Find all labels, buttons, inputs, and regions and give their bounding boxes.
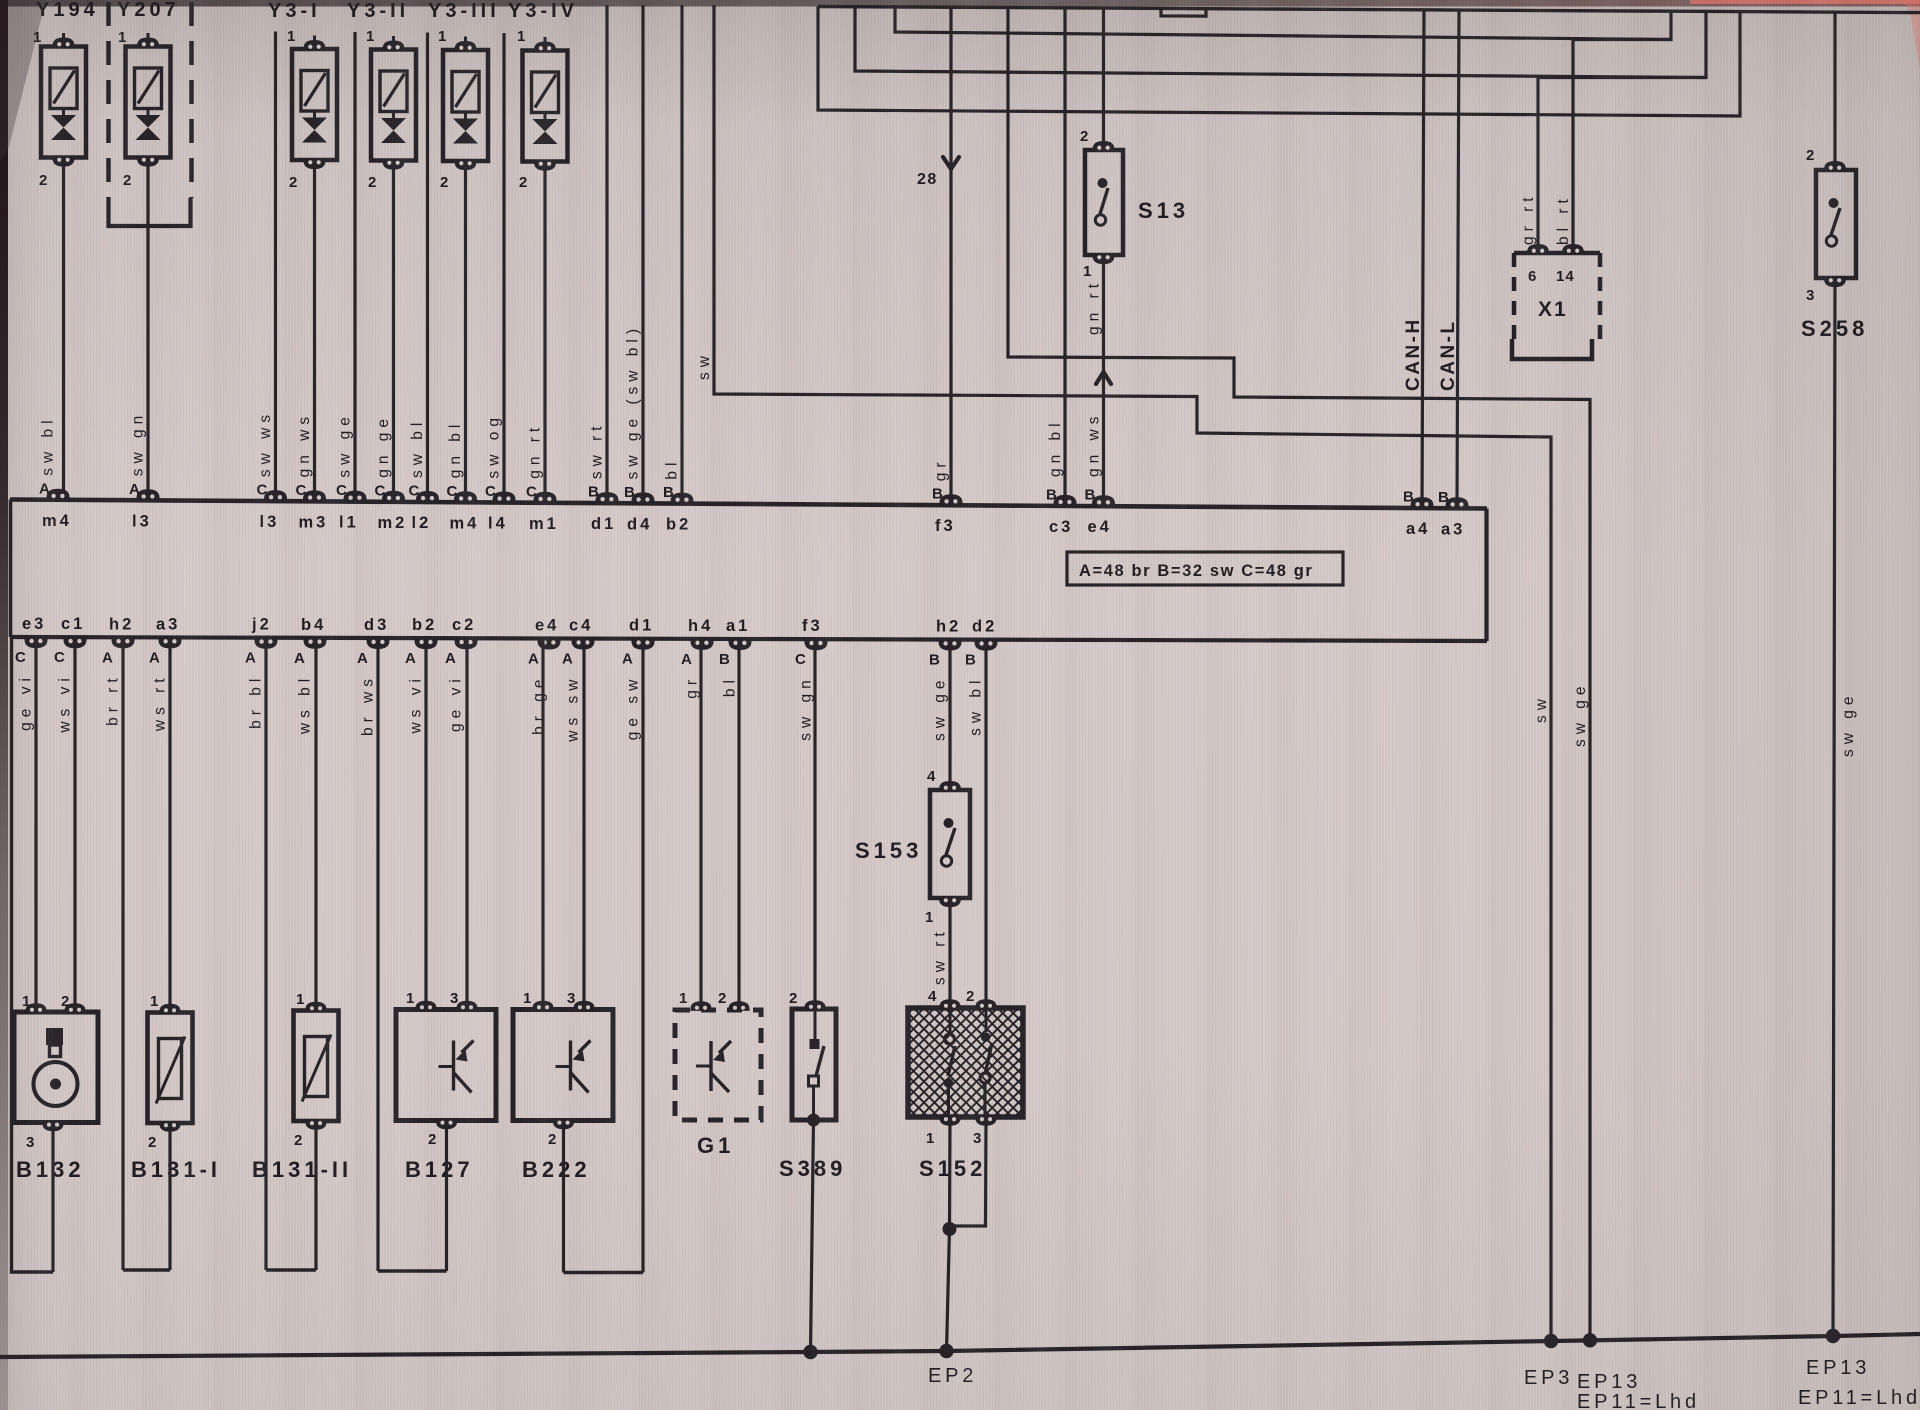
switch S389 bottom junction dot: [807, 1114, 820, 1127]
sensor B131-II pin 1 fork: [305, 1002, 326, 1012]
svg-text:Y194: Y194: [36, 0, 99, 21]
svg-text:gn bl: gn bl: [447, 420, 464, 479]
valve Y194 coil: [50, 68, 77, 109]
svg-text:C: C: [257, 482, 269, 499]
svg-text:A: A: [357, 650, 369, 667]
valve Y207 valve bowtie: [136, 115, 161, 128]
svg-text:m4: m4: [42, 512, 72, 530]
svg-text:m2: m2: [378, 514, 408, 532]
svg-text:d1: d1: [591, 515, 616, 533]
ECU bottom pin j2 fork: [255, 638, 278, 649]
wire S152 pin1 down: [948, 1117, 952, 1230]
svg-text:sw ge: sw ge: [932, 676, 949, 742]
screen top-right red glow: [1690, 0, 1920, 4]
svg-text:f3: f3: [802, 617, 823, 635]
switch S153 contacts: [944, 818, 954, 828]
svg-text:gn bl: gn bl: [1047, 418, 1064, 477]
wire Y3-III pin2 to m4: [464, 161, 467, 502]
ECU bottom pin b2 fork: [415, 639, 438, 650]
wire S13 pin2 from top rail: [1102, 8, 1105, 150]
svg-text:C: C: [795, 651, 807, 668]
wire B131-II pin2 down: [314, 1121, 317, 1270]
svg-text:m1: m1: [529, 515, 559, 533]
svg-text:h2: h2: [936, 618, 961, 636]
svg-text:e3: e3: [22, 615, 46, 633]
svg-text:2: 2: [123, 172, 132, 189]
svg-text:A: A: [562, 651, 574, 668]
wire gr direction arrow 28: [943, 157, 959, 169]
ECU top pin l4 fork: [493, 492, 516, 503]
svg-text:C: C: [15, 649, 27, 666]
svg-text:sw bl: sw bl: [409, 418, 426, 478]
svg-text:2: 2: [39, 172, 48, 189]
valve Y3-I body: [292, 49, 337, 160]
ECU bottom pin a3 fork: [159, 638, 182, 649]
wire f3 (gr) from top rail: [949, 7, 952, 505]
wire d1 (sw rt) from top edge: [605, 5, 608, 503]
svg-text:4: 4: [928, 988, 937, 1005]
switch S389 contacts: [814, 1009, 817, 1040]
svg-text:sw ge: sw ge: [337, 412, 354, 478]
svg-text:2: 2: [966, 988, 975, 1005]
svg-text:Y3-I: Y3-I: [268, 0, 321, 22]
wire bl rt to X1 pin14: [1573, 38, 1671, 41]
ground rail EP2/EP3/EP13: [0, 1334, 1920, 1357]
switch S152 pin 1 fork: [939, 1116, 960, 1126]
ground junction dot EP3: [1544, 1334, 1558, 1348]
svg-text:3: 3: [450, 990, 459, 1007]
svg-text:bl: bl: [664, 458, 681, 480]
svg-text:d3: d3: [364, 616, 389, 634]
svg-text:gn ws: gn ws: [296, 412, 313, 478]
valve Y3-IV stub: [544, 113, 547, 120]
svg-text:2: 2: [61, 993, 70, 1010]
ECU top pin l3 fork: [264, 490, 287, 501]
svg-text:bl: bl: [722, 675, 739, 697]
valve Y194 pin 1 stub wire: [62, 33, 65, 39]
svg-text:1: 1: [366, 28, 375, 45]
wire rail level-2 (from x=855 to x=1706): [855, 5, 1706, 78]
wire d3 to U-bracket (br ws): [376, 638, 379, 1271]
ECU top pin l2 fork: [416, 491, 439, 502]
valve Y3-III pin 1 fork: [455, 41, 477, 51]
valve Y3-II pin 1 fork: [383, 40, 405, 50]
svg-text:a3: a3: [1441, 520, 1465, 538]
svg-text:Y207: Y207: [117, 0, 180, 21]
svg-text:a4: a4: [1406, 520, 1430, 538]
svg-text:br rt: br rt: [105, 673, 122, 726]
svg-text:bl rt: bl rt: [1555, 194, 1572, 245]
wire d4 (sw ge/sw bl) from top edge: [641, 5, 644, 503]
svg-text:A: A: [294, 650, 306, 667]
svg-text:gn ws: gn ws: [1086, 412, 1103, 478]
svg-text:2: 2: [289, 174, 298, 191]
svg-text:2: 2: [519, 174, 528, 191]
svg-text:A=48 br B=32 sw C=48 gr: A=48 br B=32 sw C=48 gr: [1079, 562, 1313, 580]
svg-text:B: B: [1438, 489, 1450, 506]
valve Y3-IV valve bowtie: [533, 119, 558, 132]
svg-text:C: C: [336, 482, 348, 499]
svg-text:A: A: [245, 650, 257, 667]
svg-text:C: C: [485, 483, 497, 500]
wire d1 to U-bracket (ge sw): [641, 639, 644, 1273]
svg-text:B: B: [663, 484, 675, 501]
svg-text:2: 2: [440, 174, 449, 191]
svg-text:B131-II: B131-II: [252, 1157, 352, 1182]
switch S258 contacts: [1829, 198, 1839, 208]
ECU bottom pin e3 fork: [25, 638, 48, 649]
screen top bezel: [0, 0, 1920, 7]
wire sw to EP3 (elbow path): [714, 5, 1551, 1341]
svg-text:ws vi: ws vi: [57, 673, 74, 733]
ECU connector key box A=48 br B=32 sw C=48 gr: [1067, 552, 1343, 585]
switch S152 left contact set: [949, 1008, 952, 1034]
svg-text:B: B: [719, 651, 731, 668]
svg-text:G1: G1: [697, 1133, 734, 1158]
valve Y3-II body: [371, 50, 416, 161]
wire S152 pin3 elbow to pin1 wire: [950, 1117, 987, 1226]
switch S389 body: [792, 1009, 836, 1120]
svg-text:sw: sw: [696, 351, 713, 380]
svg-text:C: C: [526, 483, 538, 500]
ground junction dot S389/EP2 line: [803, 1345, 817, 1359]
ECU box bottom bus: [10, 637, 1487, 641]
svg-text:C: C: [447, 483, 459, 500]
svg-text:m4: m4: [450, 514, 480, 532]
switch S152 pin 3 fork: [975, 1116, 996, 1126]
svg-text:Y3-IV: Y3-IV: [508, 0, 578, 22]
valve Y3-I pin 1 fork: [304, 40, 326, 50]
svg-text:EP13: EP13: [1577, 1371, 1641, 1393]
svg-text:Y3-II: Y3-II: [347, 0, 409, 22]
valve Y3-IV pin 1 stub wire: [544, 37, 547, 43]
svg-text:6: 6: [1528, 268, 1537, 285]
sensor B222 symbol: [569, 1041, 572, 1091]
wire f3 to S389 pin2: [813, 639, 816, 1009]
valve Y207 body: [126, 47, 171, 158]
wire S258 pin3 to EP13 (sw ge): [1833, 278, 1835, 1336]
svg-text:CAN-L: CAN-L: [1438, 319, 1459, 391]
switch S13 pin 1 fork: [1093, 254, 1115, 264]
ECU top pin f3 fork: [940, 494, 963, 505]
wire B132 pin3 down: [51, 1123, 54, 1273]
svg-text:C: C: [375, 482, 387, 499]
svg-text:c1: c1: [61, 615, 85, 633]
svg-text:h2: h2: [109, 615, 134, 633]
wire gr rt to X1 pin6: [1538, 76, 1706, 79]
switch S153 pin 1 fork: [939, 897, 961, 907]
svg-text:2: 2: [789, 990, 798, 1007]
ECU bottom pin h4 fork: [691, 639, 714, 650]
svg-text:1: 1: [517, 28, 526, 45]
valve Y3-III stub: [464, 112, 467, 119]
svg-text:sw bl: sw bl: [968, 676, 985, 736]
svg-text:S153: S153: [855, 838, 922, 863]
svg-text:sw ge: sw ge: [1572, 682, 1589, 748]
wire S258 pin2 from top rail: [1833, 12, 1836, 170]
valve Y3-III body: [443, 50, 488, 161]
pressure switch S152 body (crosshatched): [908, 1008, 1023, 1117]
wire c4 to B222 pin3: [582, 639, 585, 1010]
svg-text:d1: d1: [629, 617, 654, 635]
svg-text:sw ws: sw ws: [257, 410, 274, 477]
valve Y3-I pin 1 stub wire: [313, 36, 316, 42]
connector X1 pin 14 fork: [1562, 244, 1584, 254]
svg-text:EP2: EP2: [928, 1365, 977, 1387]
svg-text:1: 1: [438, 28, 447, 45]
ECU top pin m2 fork: [382, 491, 405, 502]
svg-text:EP11=Lhd: EP11=Lhd: [1798, 1387, 1920, 1409]
sensor B131-II pin 2 fork: [305, 1120, 326, 1130]
svg-text:sw ge (sw bl): sw ge (sw bl): [625, 324, 642, 479]
svg-text:ge sw: ge sw: [625, 675, 642, 741]
wire U-bracket B127: [378, 1269, 447, 1272]
svg-text:1: 1: [1083, 263, 1092, 280]
valve Y207 stub: [147, 109, 150, 116]
valve Y207 pin 1 fork: [137, 37, 159, 47]
switch S389 pin 2 fork: [804, 1000, 825, 1010]
sensor B131-I body: [148, 1013, 193, 1124]
valve Y3-III coil: [452, 72, 479, 113]
connector X1 bottom bracket: [1512, 339, 1592, 359]
switch S153 body: [930, 790, 970, 898]
wire top rail: [818, 7, 1920, 13]
svg-text:a3: a3: [156, 615, 180, 633]
wire rail level-1 (from x=895 to x=1671): [895, 5, 1671, 40]
connector X1 pin 6 fork: [1527, 244, 1549, 254]
sensor B132 pin 1 fork: [25, 1003, 46, 1013]
svg-text:2: 2: [294, 1132, 303, 1149]
ECU top pin l3 fork: [137, 489, 160, 500]
switch S152 pin 2 fork: [975, 999, 996, 1009]
junction dot S152 wires: [943, 1222, 957, 1236]
wire l3 (sw ws) long vertical: [274, 32, 277, 502]
ECU bottom pin h2 fork: [939, 640, 962, 651]
ECU bottom pin c1 fork: [64, 638, 87, 649]
svg-text:1: 1: [406, 990, 415, 1007]
svg-text:ge vi: ge vi: [18, 673, 35, 731]
sensor B127 pin 1 fork: [415, 1001, 436, 1011]
valve Y3-II pin 1 stub wire: [392, 36, 395, 42]
svg-text:B: B: [929, 652, 941, 669]
wire a1 to G1 pin2: [737, 639, 740, 1010]
svg-text:2: 2: [1080, 128, 1089, 145]
sensor B222 pin 1 fork: [532, 1001, 553, 1011]
svg-text:sw: sw: [1533, 694, 1550, 723]
ECU top pin m3 fork: [303, 490, 326, 501]
svg-text:j2: j2: [251, 616, 272, 634]
valve Y3-III valve bowtie: [453, 119, 478, 132]
svg-text:B: B: [624, 484, 636, 501]
svg-text:gr: gr: [684, 675, 701, 699]
sensor B131-II body: [294, 1011, 339, 1122]
svg-text:c3: c3: [1049, 518, 1073, 536]
svg-text:gr: gr: [933, 457, 950, 481]
sensor G1 dashed body: [675, 1010, 761, 1120]
ECU top pin c3 fork: [1054, 495, 1077, 506]
sensor G1 pin 1 fork: [690, 1001, 711, 1011]
wire Y207 pin2 to l3: [146, 158, 149, 501]
svg-text:EP3: EP3: [1524, 1367, 1573, 1389]
svg-text:sw gn: sw gn: [130, 411, 147, 477]
wire S153 pin1 to S152 pin4 (sw rt): [948, 898, 951, 1002]
svg-text:B131-I: B131-I: [131, 1157, 221, 1182]
svg-text:gr rt: gr rt: [1520, 192, 1537, 245]
ECU bottom pin d2 fork: [975, 640, 998, 651]
svg-text:gn ge: gn ge: [375, 414, 392, 478]
svg-text:A: A: [149, 649, 161, 666]
ECU bottom pin a1 fork: [729, 640, 752, 651]
ECU top pin a4 fork: [1411, 497, 1434, 508]
svg-text:1: 1: [523, 990, 532, 1007]
wire Y3-II pin2 to m2: [392, 161, 395, 502]
switch S13 pin 2 fork: [1093, 141, 1115, 151]
wire B127 pin2 down: [445, 1121, 448, 1272]
valve Y3-IV coil: [532, 72, 559, 113]
screen top-left corner shading: [0, 0, 46, 160]
wire S152 to EP2 ground: [947, 1229, 950, 1351]
svg-text:1: 1: [33, 29, 42, 46]
wire Y3-IV pin2 to m1: [543, 162, 546, 503]
ECU top pin l1 fork: [344, 491, 367, 502]
ECU top pin m4 fork: [47, 489, 70, 500]
sensor B132 pin 2 fork: [64, 1003, 85, 1013]
wire S389 to EP2: [811, 1120, 814, 1352]
svg-text:B: B: [1403, 489, 1415, 506]
svg-text:br ge: br ge: [531, 675, 548, 735]
svg-text:l3: l3: [132, 512, 152, 530]
svg-text:3: 3: [1806, 287, 1815, 304]
svg-text:b2: b2: [666, 516, 691, 534]
ECU box top bus: [10, 500, 1487, 509]
screen left bezel: [0, 0, 8, 1410]
wire b2 (bl) from top edge: [680, 5, 683, 504]
switch S258 body: [1816, 170, 1856, 278]
svg-text:A: A: [102, 649, 114, 666]
svg-text:ws vi: ws vi: [408, 674, 425, 734]
valve Y3-IV pin 2 fork: [534, 161, 556, 171]
svg-text:B: B: [1046, 486, 1058, 503]
svg-text:h4: h4: [688, 617, 713, 635]
wire CAN-H from top rail to a4: [1422, 10, 1424, 508]
svg-text:B132: B132: [16, 1157, 85, 1182]
valve Y3-III pin 1 stub wire: [464, 37, 467, 43]
svg-text:ge vi: ge vi: [448, 674, 465, 732]
valve Y207 coil: [135, 68, 162, 109]
wire a3 to B131-I pin1: [168, 637, 171, 1012]
svg-text:l1: l1: [339, 514, 359, 532]
wire e4 to B222 pin1: [541, 638, 544, 1009]
sensor B132 pin 3 fork: [42, 1122, 63, 1132]
wire l2 (sw bl) long vertical: [426, 33, 429, 503]
wire d2 to S152 pin2: [984, 640, 987, 1002]
svg-text:A: A: [405, 650, 417, 667]
svg-text:2: 2: [1806, 147, 1815, 164]
valve Y3-IV body: [523, 51, 568, 162]
svg-text:S152: S152: [919, 1156, 986, 1181]
valve Y3-II pin 2 fork: [383, 160, 405, 170]
svg-text:A: A: [528, 651, 540, 668]
svg-text:CAN-H: CAN-H: [1403, 317, 1424, 391]
sensor B222 pin 2 fork: [553, 1120, 574, 1130]
svg-text:l2: l2: [412, 514, 432, 532]
svg-text:4: 4: [927, 768, 936, 785]
switch S152 pin 4 fork: [939, 999, 960, 1009]
ground junction dot EP13 right: [1826, 1329, 1840, 1343]
svg-text:B222: B222: [522, 1157, 591, 1182]
wire b2 to B127 pin1: [424, 638, 427, 1009]
svg-text:f3: f3: [935, 517, 956, 535]
sensor B127 pin 2 fork: [436, 1120, 457, 1130]
switch S13 contacts: [1098, 178, 1108, 188]
svg-text:sw ge: sw ge: [1840, 692, 1857, 758]
sensor B131-I pin 2 fork: [159, 1122, 180, 1132]
sensor B127 symbol: [452, 1041, 455, 1091]
ECU top pin d1 fork: [596, 492, 619, 503]
svg-text:3: 3: [567, 990, 576, 1007]
valve Y3-I pin 2 fork: [304, 159, 326, 169]
svg-text:br ws: br ws: [360, 674, 377, 736]
ECU bottom pin e4 fork: [538, 639, 561, 650]
switch S152 right contact set: [985, 1008, 988, 1032]
valve Y194 pin 2 fork: [53, 157, 75, 167]
svg-text:1: 1: [118, 29, 127, 46]
sensor B127 pin 3 fork: [456, 1001, 477, 1011]
svg-text:B127: B127: [405, 1157, 474, 1182]
ECU top pin m1 fork: [534, 492, 557, 503]
sensor B131-I resistor: [159, 1039, 182, 1099]
wire c1 to B132 pin2: [73, 637, 76, 1012]
component Y207 dashed enclosure: [109, 2, 192, 198]
valve Y3-III pin 2 fork: [455, 160, 477, 170]
sensor B127 body: [396, 1010, 496, 1121]
svg-text:B: B: [932, 486, 944, 503]
svg-text:l4: l4: [488, 515, 508, 533]
sensor B132 body: [14, 1012, 98, 1123]
svg-text:1: 1: [150, 993, 159, 1010]
switch S13 body: [1085, 150, 1123, 255]
valve Y194 pin 1 fork: [53, 37, 75, 47]
wire c2 to B127 pin3: [465, 638, 468, 1009]
svg-text:e4: e4: [535, 617, 559, 635]
wire rail level-3 (from x=818 to x=1740): [818, 7, 1740, 117]
svg-text:A: A: [681, 651, 693, 668]
ECU top pin e4 fork: [1092, 495, 1115, 506]
connector X1 dashed box: [1514, 251, 1600, 256]
svg-text:A: A: [39, 480, 51, 497]
wire l4 (sw og) long vertical: [502, 33, 505, 503]
valve Y194 stub: [62, 109, 65, 116]
svg-text:b4: b4: [301, 616, 326, 634]
wire U-bracket B222: [564, 1271, 644, 1274]
svg-text:c2: c2: [452, 616, 476, 634]
ECU top pin a3 fork: [1446, 497, 1469, 508]
svg-text:a1: a1: [726, 617, 750, 635]
ECU top pin m4 fork: [454, 491, 477, 502]
valve Y194 body: [41, 47, 86, 158]
ECU bottom pin f3 fork: [805, 640, 828, 651]
valve Y207 pin 1 stub wire: [147, 33, 150, 39]
svg-text:A: A: [129, 481, 141, 498]
valve Y3-I valve bowtie: [302, 118, 327, 131]
wire S13 pin1 to e4 (gn rt / gn ws): [1102, 255, 1105, 506]
svg-text:m3: m3: [299, 513, 329, 531]
wire sw ge to EP13 (elbow path): [1008, 8, 1590, 1341]
svg-text:2: 2: [148, 1134, 157, 1151]
wire gn ws direction arrow up: [1096, 372, 1111, 384]
svg-text:l3: l3: [260, 513, 280, 531]
wire b4 to B131-II pin1: [314, 638, 317, 1011]
